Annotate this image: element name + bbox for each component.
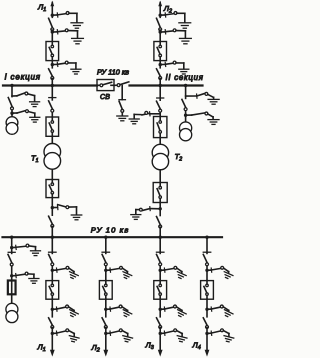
svg-text:РУ 10 кв: РУ 10 кв: [91, 225, 130, 234]
svg-text:РУ 110 кв: РУ 110 кв: [97, 68, 129, 77]
svg-text:II секция: II секция: [166, 73, 204, 82]
svg-text:I секция: I секция: [5, 73, 41, 82]
svg-text:СВ: СВ: [100, 94, 110, 101]
